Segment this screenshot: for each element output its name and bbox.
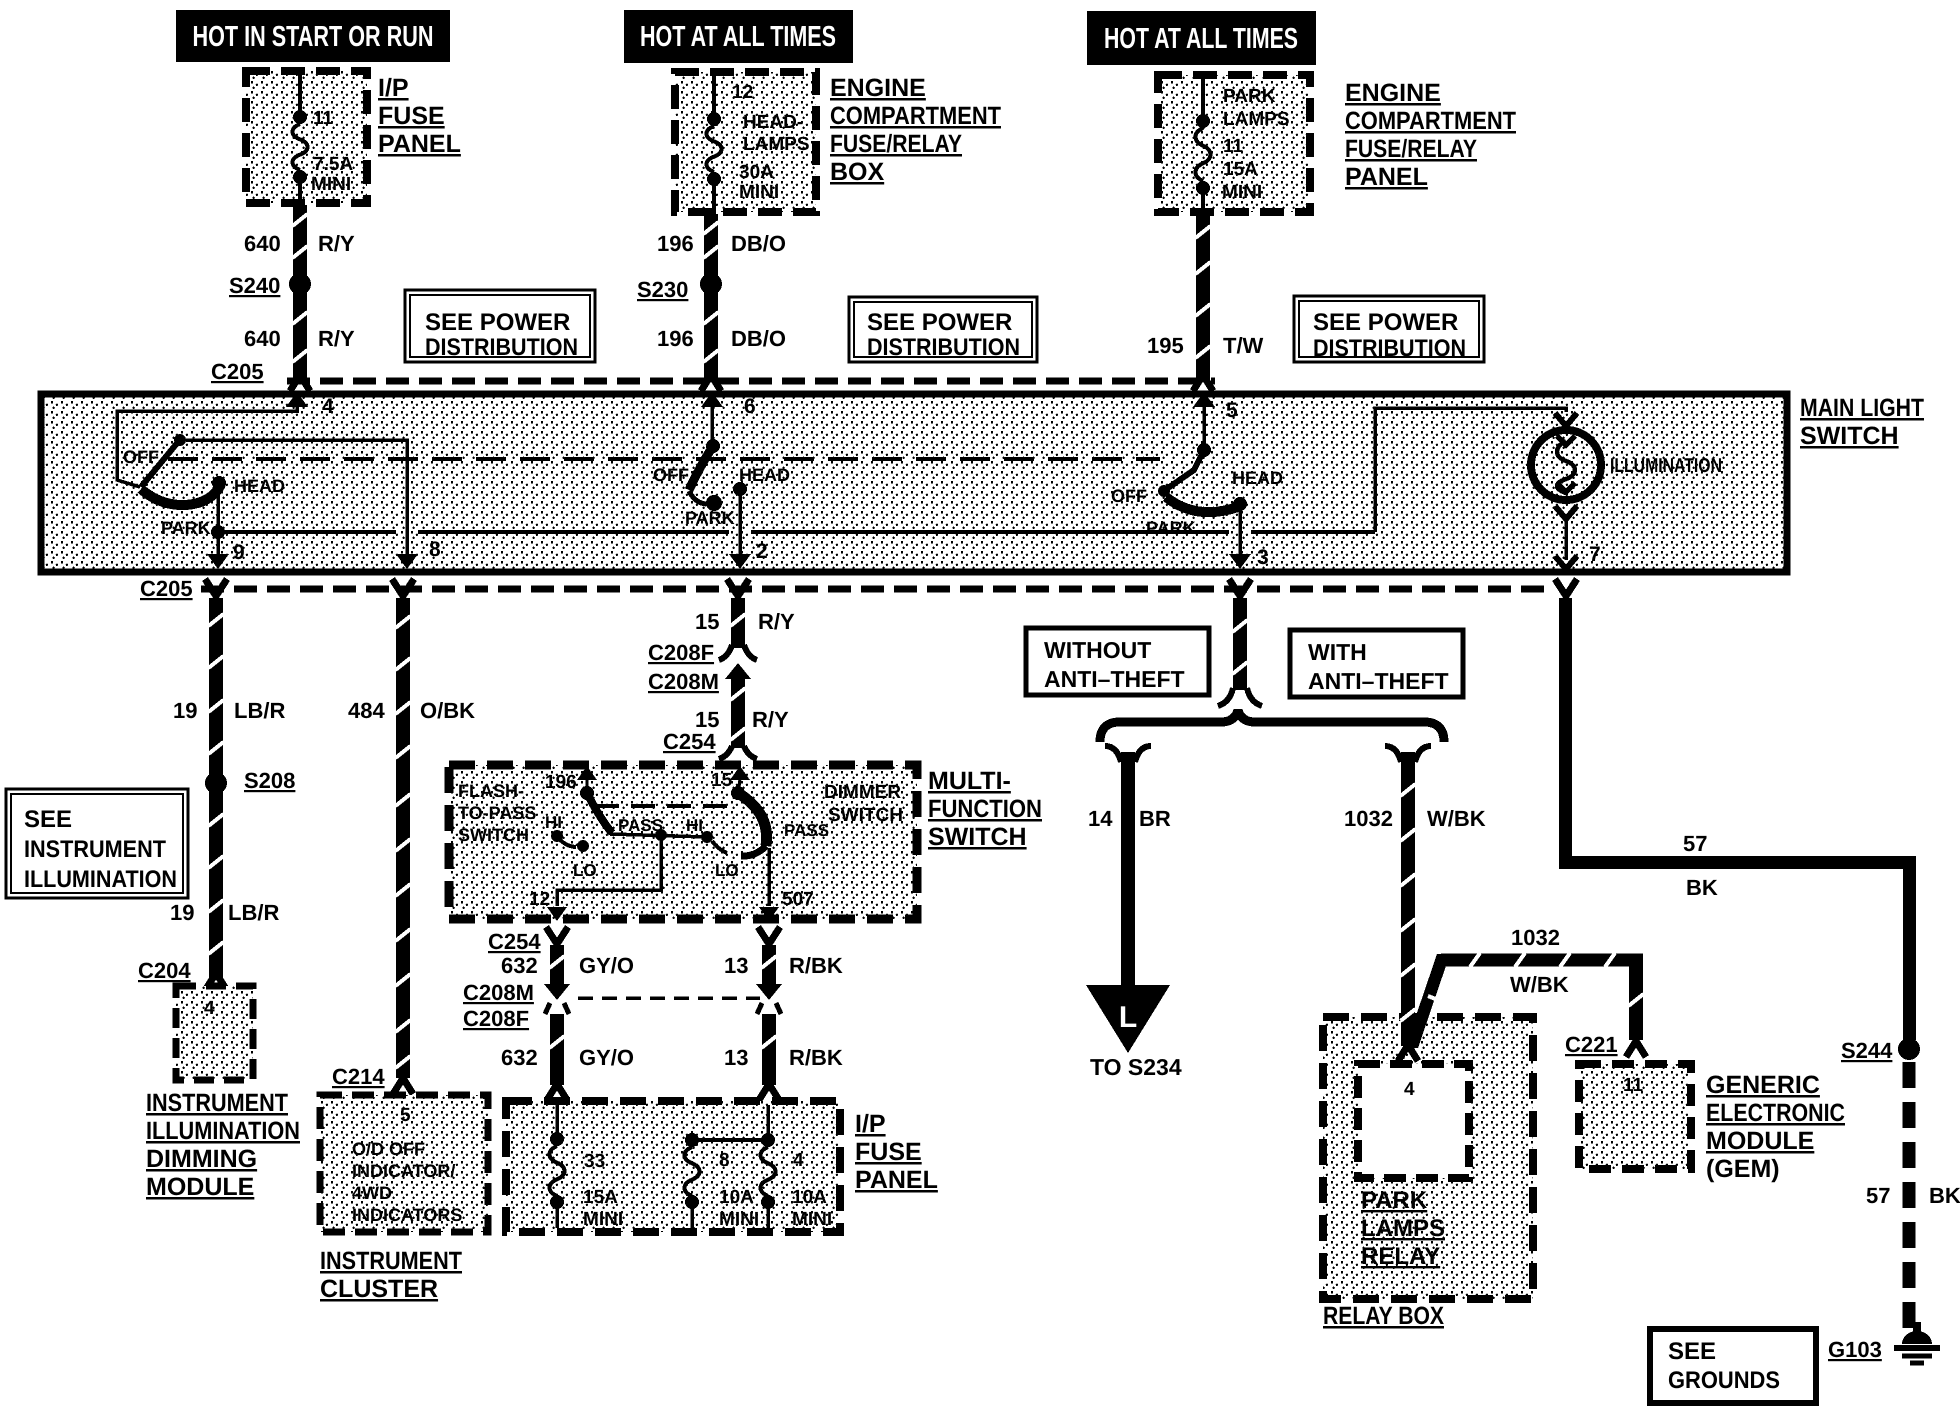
svg-text:14: 14 (1088, 806, 1113, 831)
svg-text:640: 640 (244, 326, 281, 351)
svg-text:GENERIC: GENERIC (1706, 1071, 1820, 1099)
wire 484 O/BK (pin 8 to instrument cluster) (392, 579, 414, 1094)
junction node at pin 9 (211, 525, 225, 539)
svg-text:I/P: I/P (378, 74, 409, 102)
svg-text:BK: BK (1686, 875, 1718, 900)
svg-text:TO-PASS: TO-PASS (458, 803, 536, 823)
svg-text:DISTRIBUTION: DISTRIBUTION (1313, 335, 1466, 362)
svg-text:15: 15 (695, 609, 719, 634)
splice S240 (289, 273, 311, 295)
svg-text:PANEL: PANEL (1345, 163, 1428, 191)
dimmer common pivot (731, 786, 745, 800)
wire PASS contact rail (610, 834, 707, 837)
engine compartment fuse/relay box (dashed) (675, 72, 816, 212)
svg-text:C254: C254 (488, 929, 541, 954)
svg-text:ENGINE: ENGINE (830, 74, 926, 102)
svg-text:R/Y: R/Y (752, 707, 789, 732)
svg-text:R/BK: R/BK (789, 953, 843, 978)
svg-text:6: 6 (744, 395, 756, 418)
flash-to-pass position label PASS (618, 816, 663, 835)
wire OFF rail to pin 8 (186, 440, 407, 554)
svg-text:INDICATOR/: INDICATOR/ (352, 1161, 455, 1181)
svg-text:WITH: WITH (1308, 639, 1367, 665)
connector C205 label (bottom) (140, 576, 193, 601)
svg-text:BK: BK (1929, 1183, 1960, 1208)
wire 15 R/Y (C208M to C254) (719, 672, 757, 759)
svg-text:MINI: MINI (583, 1209, 623, 1230)
junction node on pass rail (655, 829, 667, 841)
wire label 57 BK (lower) (1866, 1183, 1960, 1208)
pin 5 (1193, 392, 1238, 422)
wire pin 6 to switch B common (710, 405, 714, 442)
svg-text:MODULE: MODULE (146, 1173, 254, 1201)
svg-text:11: 11 (1623, 1075, 1644, 1096)
svg-text:FUSE/RELAY: FUSE/RELAY (830, 130, 962, 158)
svg-text:196: 196 (657, 231, 694, 256)
svg-text:INDICATORS: INDICATORS (352, 1205, 462, 1225)
svg-text:LO: LO (573, 861, 597, 880)
wire 640 R/Y (fuse 11 to C205) (290, 205, 310, 391)
svg-text:LAMPS: LAMPS (743, 134, 810, 155)
svg-text:R/Y: R/Y (318, 326, 355, 351)
wire label 632 GY/O (upper) (501, 953, 634, 978)
svg-text:INSTRUMENT: INSTRUMENT (320, 1247, 462, 1275)
svg-text:DB/O: DB/O (731, 326, 786, 351)
svg-text:O/D OFF: O/D OFF (352, 1139, 425, 1159)
svg-text:8: 8 (719, 1150, 730, 1171)
svg-text:GY/O: GY/O (579, 953, 634, 978)
wire 57 BK (S244 to G103, dashed) (1909, 1062, 1917, 1332)
wire label 484 O/BK (348, 698, 475, 723)
svg-text:4: 4 (322, 395, 334, 418)
svg-text:G103: G103 (1828, 1337, 1882, 1362)
svg-text:C208F: C208F (463, 1006, 529, 1031)
wire 57 BK (pin 7 to S244) (1555, 579, 1916, 1040)
svg-text:632: 632 (501, 1045, 538, 1070)
dimmer HI contact (701, 831, 727, 853)
wire 632 GY/O (lower) (545, 1003, 569, 1100)
wire pin 5 to switch C common (1202, 405, 1206, 446)
svg-text:C214: C214 (332, 1064, 385, 1089)
svg-text:SEE POWER: SEE POWER (1313, 309, 1458, 336)
svg-text:19: 19 (170, 900, 194, 925)
svg-text:C221: C221 (1565, 1032, 1618, 1057)
svg-text:SEE POWER: SEE POWER (867, 309, 1012, 336)
svg-text:FLASH-: FLASH- (458, 781, 524, 801)
wire label 14 BR (1088, 806, 1171, 831)
wire label 19 LB/R (lower) (170, 900, 279, 925)
svg-text:MINI: MINI (311, 174, 351, 195)
svg-text:C204: C204 (138, 958, 191, 983)
dimmer blade (to PASS) (738, 793, 767, 856)
splice S208 (205, 772, 227, 794)
off-page arrow TO S234 (1086, 985, 1170, 1053)
svg-text:9: 9 (233, 541, 245, 564)
svg-text:10A: 10A (792, 1187, 827, 1208)
svg-text:TO S234: TO S234 (1090, 1054, 1182, 1080)
svg-text:HEAD-: HEAD- (743, 112, 803, 133)
connector C221 label (1565, 1032, 1618, 1057)
pin 12 (529, 889, 567, 921)
svg-text:30A: 30A (739, 162, 774, 183)
svg-text:PARK: PARK (1361, 1187, 1428, 1214)
splice label S240 (229, 273, 280, 298)
inline connector dashed line C208 (578, 996, 760, 1000)
switch C position label HEAD (1232, 468, 1283, 488)
svg-text:SWITCH: SWITCH (1800, 422, 1899, 450)
svg-text:LAMPS: LAMPS (1223, 109, 1290, 130)
component name GENERIC ELECTRONIC MODULE (GEM) (1706, 1071, 1845, 1183)
wire label 1032 W/BK (1344, 806, 1486, 831)
svg-text:HOT AT ALL TIMES: HOT AT ALL TIMES (1104, 23, 1298, 55)
note box WITHOUT ANTI-THEFT (1026, 628, 1209, 695)
options bracket (brace) (1100, 710, 1444, 742)
svg-text:15A: 15A (583, 1187, 618, 1208)
wire label 196 DB/O (upper) (657, 231, 786, 256)
svg-text:R/Y: R/Y (318, 231, 355, 256)
wire 13 R/BK (upper) (758, 927, 780, 985)
switch B blade (to PARK) (689, 446, 713, 504)
cluster internal label O/D OFF INDICATOR / 4WD INDICATORS (352, 1139, 462, 1225)
svg-text:7.5A: 7.5A (313, 154, 353, 175)
component name INSTRUMENT ILLUMINATION DIMMING MODULE (146, 1089, 300, 1201)
fuse rating label 15A MINI (1222, 159, 1262, 203)
wire 19 LB/R (pin 9 to C204) (205, 579, 227, 989)
wire pin 15 to dimmer common (739, 778, 740, 788)
svg-text:L: L (1119, 1001, 1137, 1034)
instrument cluster box (dashed) (320, 1095, 488, 1232)
svg-text:4WD: 4WD (352, 1183, 392, 1203)
component name PARK LAMPS RELAY (1361, 1187, 1445, 1270)
splice S244 (1898, 1038, 1920, 1060)
pin 8 (396, 538, 441, 569)
switch A OFF contact (141, 434, 186, 487)
svg-text:DB/O: DB/O (731, 231, 786, 256)
wire switch B head contact to pin 2 (738, 489, 742, 554)
note box SEE GROUNDS (1650, 1329, 1816, 1403)
svg-text:SEE: SEE (24, 806, 72, 833)
svg-text:C208M: C208M (648, 669, 719, 694)
svg-text:S208: S208 (244, 768, 295, 793)
fuse 11 7.5A MINI (293, 74, 308, 205)
fuse rating label 7.5A MINI (311, 154, 353, 195)
svg-text:HI: HI (545, 813, 562, 832)
flash-to-pass position label HI (545, 813, 562, 832)
engine compartment fuse/relay panel box (dashed) (1158, 75, 1310, 212)
svg-text:1032: 1032 (1511, 925, 1560, 950)
svg-text:1032: 1032 (1344, 806, 1393, 831)
svg-text:11: 11 (1223, 136, 1244, 157)
park lamps relay connector box (dashed inner) (1358, 1064, 1469, 1178)
component name RELAY BOX (1323, 1302, 1444, 1330)
component name INSTRUMENT CLUSTER (320, 1247, 462, 1303)
svg-text:FUSE: FUSE (855, 1138, 922, 1166)
fuse 4 label (793, 1150, 804, 1171)
svg-text:ELECTRONIC: ELECTRONIC (1706, 1099, 1845, 1127)
fuse 33 label (584, 1151, 605, 1172)
switch name label FLASH-TO-PASS SWITCH (458, 781, 536, 845)
wire label 19 LB/R (upper) (173, 698, 285, 723)
svg-text:CLUSTER: CLUSTER (320, 1275, 438, 1303)
svg-text:12: 12 (732, 82, 753, 103)
svg-text:DISTRIBUTION: DISTRIBUTION (867, 334, 1020, 361)
fuse 12 label (732, 82, 753, 103)
wire 1032 W/BK (with anti-theft) (1385, 746, 1431, 1061)
svg-text:PARK: PARK (1146, 518, 1196, 538)
fuse rating label 30A MINI (739, 162, 779, 203)
fuse rating label 15A MINI (fuse 33) (583, 1187, 623, 1230)
svg-text:R/Y: R/Y (758, 609, 795, 634)
dimmer position label PASS (784, 821, 829, 840)
svg-text:MINI: MINI (739, 182, 779, 203)
svg-text:HOT AT ALL TIMES: HOT AT ALL TIMES (640, 21, 836, 53)
note box WITH ANTI-THEFT (1290, 630, 1463, 697)
wire dimmer pass contact to pin 507 (767, 848, 771, 906)
svg-text:4: 4 (204, 998, 215, 1019)
svg-text:507: 507 (782, 889, 814, 910)
connector C208F label (lower) (463, 1006, 529, 1031)
svg-text:(GEM): (GEM) (1706, 1155, 1780, 1183)
svg-text:19: 19 (173, 698, 197, 723)
inline connector arrow C208M (points up) (725, 663, 751, 679)
svg-text:O/BK: O/BK (420, 698, 475, 723)
fuse 8 label (719, 1150, 730, 1171)
svg-text:S230: S230 (637, 277, 688, 302)
svg-text:5: 5 (400, 1105, 411, 1126)
pin 507 (759, 889, 814, 921)
I/P fuse panel box (dashed) (246, 71, 367, 203)
illumination lamp (1531, 430, 1601, 500)
wire 14 BR (without anti-theft) (1105, 746, 1151, 988)
svg-text:C254: C254 (663, 729, 716, 754)
svg-text:HEAD: HEAD (234, 476, 285, 496)
switch A position label OFF (123, 447, 159, 467)
connector C205 label (top) (211, 359, 264, 384)
svg-text:INSTRUMENT: INSTRUMENT (24, 836, 166, 863)
svg-text:LB/R: LB/R (228, 900, 279, 925)
svg-text:COMPARTMENT: COMPARTMENT (830, 102, 1001, 130)
I/P fuse panel box bottom (dashed) (506, 1101, 840, 1232)
svg-text:57: 57 (1683, 831, 1707, 856)
switch C position label OFF (1111, 486, 1147, 506)
lamp label ILLUMINATION (1610, 455, 1722, 477)
wire label 13 R/BK (upper) (724, 953, 843, 978)
connector C205 dashed line (bottom) (201, 586, 1545, 593)
svg-text:W/BK: W/BK (1510, 972, 1569, 997)
pin 4 (286, 392, 334, 418)
switch C blade link to OFF (1168, 450, 1204, 488)
fuse name label PARK LAMPS (1223, 86, 1290, 130)
wire pin4 to switch A common (117, 405, 297, 487)
wire illumination lamp to pin 7 (1555, 506, 1577, 560)
svg-text:PANEL: PANEL (378, 130, 461, 158)
svg-text:2: 2 (756, 540, 768, 563)
wire junction to pin 12 (557, 835, 661, 906)
wire label 1032 (to GEM) (1511, 925, 1560, 950)
fuse 11 label (313, 108, 334, 129)
svg-text:HI: HI (686, 816, 703, 835)
svg-text:10A: 10A (719, 1187, 754, 1208)
connector C208M label (lower) (463, 980, 534, 1005)
svg-text:ILLUMINATION: ILLUMINATION (146, 1117, 300, 1145)
svg-text:8: 8 (429, 538, 441, 561)
svg-text:33: 33 (584, 1151, 605, 1172)
svg-text:MULTI-: MULTI- (928, 767, 1011, 795)
svg-text:195: 195 (1147, 333, 1184, 358)
switch A blade (to HEAD) (141, 476, 226, 505)
note box SEE INSTRUMENT ILLUMINATION (6, 789, 188, 898)
svg-text:COMPARTMENT: COMPARTMENT (1345, 107, 1516, 135)
power source header HOT IN START OR RUN (176, 10, 450, 62)
pin 4 label (park lamps relay) (1404, 1079, 1415, 1100)
svg-text:MINI: MINI (1222, 182, 1262, 203)
inline connector arrow C208M lower (points down) (544, 984, 570, 1000)
svg-text:SWITCH: SWITCH (828, 805, 903, 826)
switch B position label OFF (653, 465, 689, 485)
svg-text:DIMMER: DIMMER (824, 782, 901, 803)
svg-text:W/BK: W/BK (1427, 806, 1486, 831)
inline connector arrow (13 R/BK, points down) (756, 984, 782, 1000)
connector C204 label (138, 958, 191, 983)
switch B position label PARK (685, 508, 735, 528)
svg-text:R/BK: R/BK (789, 1045, 843, 1070)
svg-text:DISTRIBUTION: DISTRIBUTION (425, 334, 578, 361)
fuse 11 label (park lamps) (1223, 136, 1244, 157)
flash-to-pass LO contact (560, 840, 589, 852)
svg-text:15A: 15A (1223, 159, 1258, 180)
svg-text:C205: C205 (140, 576, 193, 601)
pin 9 (207, 532, 245, 569)
pin 6 (701, 392, 756, 418)
svg-text:11: 11 (313, 108, 334, 129)
switch C OFF contact (1158, 485, 1170, 497)
svg-text:196: 196 (545, 772, 577, 793)
ground G103 (1894, 1331, 1940, 1363)
svg-text:PASS: PASS (784, 821, 829, 840)
svg-text:BR: BR (1139, 806, 1171, 831)
wire label 632 GY/O (lower) (501, 1045, 634, 1070)
component name I/P FUSE PANEL (bottom) (855, 1110, 938, 1194)
svg-text:PANEL: PANEL (855, 1166, 938, 1194)
pin 11 label (GEM) (1623, 1075, 1644, 1096)
component name MULTI-FUNCTION SWITCH (928, 767, 1042, 851)
svg-text:15: 15 (711, 770, 733, 791)
switch C blade (to HEAD) (1166, 497, 1247, 512)
switch C position label PARK (1146, 518, 1196, 538)
svg-text:3: 3 (1257, 546, 1269, 569)
connector C208F label (648, 640, 714, 665)
wire label 640 R/Y (upper) (244, 231, 355, 256)
svg-text:ILLUMINATION: ILLUMINATION (1610, 455, 1722, 477)
svg-text:OFF: OFF (1111, 486, 1147, 506)
wire pin 196 to flash-to-pass common (586, 778, 589, 788)
svg-text:PARK: PARK (1223, 86, 1276, 107)
wire 196 DB/O (fuse 12 to C205) (701, 214, 721, 391)
mechanical coupling dashed line (168, 457, 1160, 461)
flash-to-pass blade (to PASS) (587, 793, 612, 833)
instrument illumination dimming module connector box (dashed) (176, 986, 253, 1080)
switch B common pivot (706, 439, 720, 453)
ground label G103 (1828, 1337, 1882, 1362)
pin 196 (545, 766, 597, 793)
wire from pin 3 (options feed) (1218, 579, 1262, 706)
svg-text:4: 4 (1404, 1079, 1415, 1100)
switch A position label PARK (161, 518, 211, 538)
pin 5 label (instrument cluster) (400, 1105, 411, 1126)
main light switch box (41, 394, 1787, 572)
svg-text:DIMMING: DIMMING (146, 1145, 257, 1173)
pin 15 (dimmer) (711, 766, 750, 791)
switch name label DIMMER SWITCH (824, 782, 903, 826)
svg-text:196: 196 (657, 326, 694, 351)
wire 195 T/W (park lamps fuse to C205) (1193, 214, 1213, 391)
pin 3 (1229, 546, 1269, 569)
svg-text:13: 13 (724, 953, 748, 978)
splice label S244 (1841, 1038, 1893, 1063)
svg-text:PARK: PARK (685, 508, 735, 528)
connector C205 dashed line (top) (287, 378, 1215, 385)
relay box (dashed outer) (1323, 1017, 1533, 1299)
wire label 640 R/Y (lower) (244, 326, 355, 351)
fuse 11 PARK LAMPS 15A MINI (1196, 78, 1211, 214)
svg-text:HOT IN START OR RUN: HOT IN START OR RUN (193, 21, 434, 53)
svg-text:632: 632 (501, 953, 538, 978)
mechanical coupling dashed line (multi-function switch) (595, 804, 730, 808)
note box SEE POWER DISTRIBUTION (left) (405, 290, 595, 362)
generic electronic module box (dashed) (1579, 1064, 1691, 1169)
svg-text:640: 640 (244, 231, 281, 256)
svg-text:FUNCTION: FUNCTION (928, 795, 1042, 823)
wire park rail to illumination lamp (1375, 408, 1577, 532)
svg-text:MINI: MINI (792, 1209, 832, 1230)
svg-text:BOX: BOX (830, 158, 885, 186)
component name ENGINE COMPARTMENT FUSE/RELAY BOX (830, 74, 1001, 186)
svg-text:LAMPS: LAMPS (1361, 1215, 1445, 1242)
svg-text:INSTRUMENT: INSTRUMENT (146, 1089, 288, 1117)
component name ENGINE COMPARTMENT FUSE/RELAY PANEL (1345, 79, 1516, 191)
fuse 8 10A MINI (685, 1133, 700, 1228)
svg-text:C208M: C208M (463, 980, 534, 1005)
svg-text:5: 5 (1226, 399, 1238, 422)
off-page label TO S234 (1090, 1054, 1182, 1080)
fuse 33 15A MINI (550, 1105, 565, 1228)
wire label W/BK (to GEM) (1510, 972, 1569, 997)
svg-text:C205: C205 (211, 359, 264, 384)
svg-text:MINI: MINI (719, 1209, 759, 1230)
switch A position label HEAD (234, 476, 285, 496)
svg-text:RELAY: RELAY (1361, 1243, 1440, 1270)
connector C254 label (upper) (663, 729, 716, 754)
fuse rating label 10A MINI (fuse 8) (719, 1187, 759, 1230)
connector C208M label (648, 669, 719, 694)
svg-text:SEE: SEE (1668, 1338, 1716, 1365)
svg-text:HEAD: HEAD (739, 465, 790, 485)
svg-text:13: 13 (724, 1045, 748, 1070)
svg-text:SWITCH: SWITCH (458, 825, 529, 845)
svg-text:WITHOUT: WITHOUT (1044, 637, 1151, 663)
svg-text:7: 7 (1589, 543, 1601, 566)
svg-text:GROUNDS: GROUNDS (1668, 1367, 1780, 1394)
svg-text:T/W: T/W (1223, 333, 1264, 358)
power source header HOT AT ALL TIMES (center) (624, 10, 853, 63)
connector C214 label (332, 1064, 385, 1089)
wire 1032 W/BK branch (to GEM) (1405, 953, 1646, 1057)
wire label 57 BK (upper) (1683, 831, 1718, 900)
dimmer position label LO (715, 861, 739, 880)
flash-to-pass common pivot (580, 786, 594, 800)
svg-text:12: 12 (529, 889, 550, 910)
svg-text:OFF: OFF (653, 465, 689, 485)
